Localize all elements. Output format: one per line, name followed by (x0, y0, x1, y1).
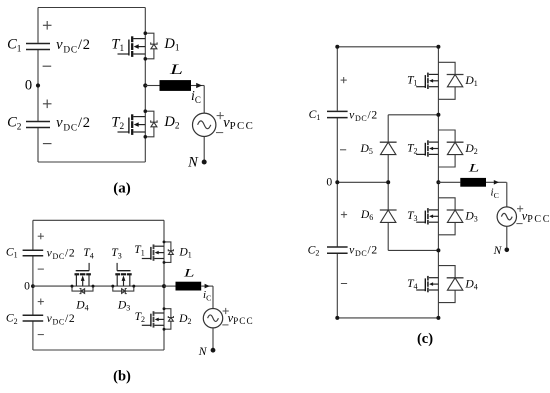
svg-text:L: L (182, 267, 194, 280)
svg-text:N: N (493, 244, 503, 257)
svg-text:(c): (c) (417, 331, 433, 347)
svg-text:N: N (187, 154, 199, 170)
svg-text:L: L (467, 161, 479, 174)
svg-text:(a): (a) (113, 180, 131, 196)
svg-text:N: N (198, 345, 208, 358)
svg-text:L: L (168, 62, 183, 78)
svg-text:0: 0 (24, 280, 30, 293)
svg-text:0: 0 (25, 78, 32, 94)
svg-text:(b): (b) (113, 369, 131, 385)
svg-text:0: 0 (326, 176, 332, 189)
